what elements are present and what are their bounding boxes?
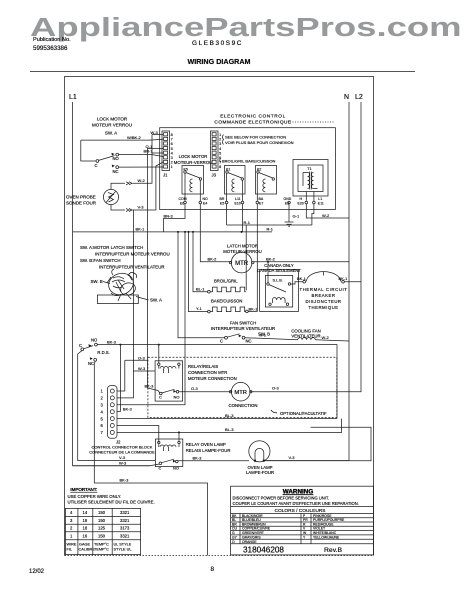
svg-text:4: 4 xyxy=(171,151,173,155)
svg-text:3: 3 xyxy=(171,156,173,160)
svg-text:BAKE/CUISSON: BAKE/CUISSON xyxy=(211,299,242,304)
svg-text:4: 4 xyxy=(101,409,104,414)
svg-text:GRAY/GRIS: GRAY/GRIS xyxy=(242,535,261,539)
svg-text:Y-1: Y-1 xyxy=(196,306,203,311)
svg-text:UL STYLE: UL STYLE xyxy=(114,543,132,547)
wire BN-3 from COM xyxy=(164,204,186,232)
svg-text:FIL: FIL xyxy=(67,548,73,552)
wire J2 pin6 to lamp relay coil xyxy=(117,426,159,443)
svg-text:N: N xyxy=(344,94,349,101)
svg-text:C: C xyxy=(220,339,223,344)
svg-text:3321: 3321 xyxy=(120,534,130,539)
svg-text:V-3: V-3 xyxy=(289,455,296,460)
relay K1 xyxy=(225,166,246,195)
oven lamp xyxy=(249,441,270,462)
svg-text:NC: NC xyxy=(88,361,94,366)
svg-text:2: 2 xyxy=(219,138,221,142)
svg-text:FAN SWITCH: FAN SWITCH xyxy=(230,321,257,326)
svg-text:BROIL/GRIL BAKE/CUISSON: BROIL/GRIL BAKE/CUISSON xyxy=(222,159,276,164)
wire coil to RDS row xyxy=(158,345,160,363)
wire relay NO to MTR connection xyxy=(179,391,232,393)
relay K2 xyxy=(256,166,277,195)
svg-text:7: 7 xyxy=(101,430,104,435)
svg-text:C: C xyxy=(159,395,162,400)
svg-text:14: 14 xyxy=(83,510,88,515)
wire lock switch loop xyxy=(81,138,163,141)
svg-text:S.L.B.: S.L.B. xyxy=(273,278,283,282)
svg-text:THERMAL CIRCUIT: THERMAL CIRCUIT xyxy=(300,287,348,292)
svg-text:Y: Y xyxy=(303,535,306,539)
svg-text:RELAIS LAMPE-FOUR: RELAIS LAMPE-FOUR xyxy=(186,448,231,453)
svg-text:COMMANDE ELECTRONIQUE: COMMANDE ELECTRONIQUE xyxy=(214,120,291,126)
svg-text:SW. A:MOTOR LATCH SWITCH: SW. A:MOTOR LATCH SWITCH xyxy=(80,245,143,250)
svg-text:SONDE FOUR: SONDE FOUR xyxy=(66,201,97,206)
svg-text:3: 3 xyxy=(101,403,104,408)
main border bottom dotted xyxy=(65,555,374,557)
svg-text:V-3: V-3 xyxy=(119,455,126,460)
svg-text:MTR: MTR xyxy=(234,390,247,396)
svg-text:BL-1: BL-1 xyxy=(196,286,205,291)
svg-text:NO: NO xyxy=(174,395,180,400)
svg-text:YELLOW/JAUNE: YELLOW/JAUNE xyxy=(313,535,340,539)
svg-text:GY: GY xyxy=(232,535,238,539)
svg-text:BK-3: BK-3 xyxy=(145,383,155,388)
svg-text:C: C xyxy=(79,343,82,348)
svg-text:COUPER LE COURANT AVANT D'EFFE: COUPER LE COURANT AVANT D'EFFECTUER UNE … xyxy=(233,501,359,506)
svg-text:BN-3: BN-3 xyxy=(164,213,174,218)
svg-text:4: 4 xyxy=(219,147,221,151)
svg-text:6: 6 xyxy=(101,423,104,428)
svg-text:GND: GND xyxy=(284,197,292,201)
svg-text:G-1: G-1 xyxy=(293,214,300,219)
svg-text:2: 2 xyxy=(70,526,73,531)
svg-text:NO: NO xyxy=(113,156,120,161)
svg-text:MTR: MTR xyxy=(235,261,249,267)
control board pin terminals xyxy=(184,201,316,204)
svg-text:WIRE: WIRE xyxy=(67,543,77,547)
wire R-1 from BR to broil xyxy=(226,204,228,225)
svg-text:5995363386: 5995363386 xyxy=(33,45,68,52)
svg-text:NC: NC xyxy=(113,169,119,174)
svg-text:SW. B: SW. B xyxy=(91,279,103,284)
svg-text:5: 5 xyxy=(101,416,104,421)
svg-text:O-3: O-3 xyxy=(191,386,198,391)
svg-text:3173: 3173 xyxy=(120,526,130,531)
svg-text:BK-1: BK-1 xyxy=(297,276,307,281)
svg-text:SW. B:FAN SWITCH: SW. B:FAN SWITCH xyxy=(80,258,121,263)
J3 pin contacts xyxy=(212,133,216,168)
svg-text:LOCK MOTOR: LOCK MOTOR xyxy=(97,117,128,122)
motor MTR connection xyxy=(231,382,250,401)
svg-text:Rev.B: Rev.B xyxy=(324,547,342,554)
wire row BK-1 xyxy=(73,231,272,233)
wire W-3 to relay C xyxy=(73,464,160,466)
wire J2 pin3 from COM drop xyxy=(117,232,185,405)
svg-text:4: 4 xyxy=(70,510,73,515)
connector J2 xyxy=(108,386,117,439)
svg-text:ELECTRONIC CONTROL: ELECTRONIC CONTROL xyxy=(220,114,286,120)
wire from NO E4 to latch motor xyxy=(200,204,231,262)
svg-text:O-3: O-3 xyxy=(138,356,145,361)
wire MTR row to SLB xyxy=(267,262,269,277)
title underline xyxy=(30,71,415,73)
svg-text:L2: L2 xyxy=(355,94,363,101)
svg-text:R-1: R-1 xyxy=(260,333,267,338)
svg-text:W-3: W-3 xyxy=(119,460,127,465)
svg-text:W-3: W-3 xyxy=(151,130,159,135)
svg-text:J1: J1 xyxy=(163,173,168,178)
svg-text:SW. A: SW. A xyxy=(105,131,117,136)
main diagram border xyxy=(65,77,374,556)
svg-text:E4: E4 xyxy=(203,202,207,206)
svg-text:BL-3: BL-3 xyxy=(225,427,234,432)
svg-text:NO: NO xyxy=(203,197,209,201)
wire MTR to N xyxy=(254,261,349,263)
svg-text:V-3: V-3 xyxy=(138,205,145,210)
colors table xyxy=(231,513,374,543)
svg-text:E5: E5 xyxy=(220,202,224,206)
svg-text:L1: L1 xyxy=(318,197,322,201)
svg-text:TEMP°C: TEMP°C xyxy=(94,543,109,547)
svg-text:NO: NO xyxy=(91,338,98,343)
wire row R-1 upper xyxy=(227,224,312,226)
svg-text:BK-3: BK-3 xyxy=(193,455,203,460)
svg-text:E20: E20 xyxy=(298,202,304,206)
svg-text:W-3: W-3 xyxy=(138,366,146,371)
svg-text:125: 125 xyxy=(98,526,106,531)
svg-text:RELAY OVEN LAMP: RELAY OVEN LAMP xyxy=(186,442,226,447)
svg-text:BREAKER: BREAKER xyxy=(311,293,335,298)
svg-text:W-2: W-2 xyxy=(322,213,330,218)
wire BL-1 to broil xyxy=(193,232,208,292)
svg-text:TEMP°C: TEMP°C xyxy=(94,548,109,552)
wire J2 pin7 row xyxy=(117,419,342,433)
svg-text:BK-1: BK-1 xyxy=(136,227,146,232)
svg-text:150: 150 xyxy=(98,510,106,515)
svg-text:WARNING: WARNING xyxy=(283,488,314,495)
svg-text:BK-1: BK-1 xyxy=(339,276,349,281)
svg-text:5: 5 xyxy=(171,147,173,151)
svg-text:COM: COM xyxy=(179,197,187,201)
svg-text:18: 18 xyxy=(83,518,88,523)
svg-text:BR: BR xyxy=(220,197,225,201)
svg-text:OVEN PROBE: OVEN PROBE xyxy=(66,195,96,200)
wire probe top V-2 xyxy=(111,183,125,189)
wire NC to J1 xyxy=(119,166,163,168)
wire lamp relay coil right up xyxy=(178,432,180,441)
svg-text:INTERRUPTEUR MOTEUR VERROU: INTERRUPTEUR MOTEUR VERROU xyxy=(95,252,170,257)
wire probe branch to J2 pin2 xyxy=(117,210,133,398)
optional box dashed xyxy=(148,357,337,417)
svg-text:CONNECTION MTR: CONNECTION MTR xyxy=(188,370,227,375)
svg-text:W-2: W-2 xyxy=(138,178,146,183)
svg-text:BK-3: BK-3 xyxy=(107,339,117,344)
wire BN-1 stub to J1 pin4 xyxy=(152,152,163,154)
wire Y-1 to bake xyxy=(189,232,208,312)
svg-text:J3: J3 xyxy=(212,173,217,178)
svg-text:12/02: 12/02 xyxy=(29,569,45,575)
wire fan C left xyxy=(178,232,225,338)
svg-text:CALIBRE: CALIBRE xyxy=(79,548,96,552)
svg-text:1: 1 xyxy=(171,165,173,169)
svg-text:THERMIQUE: THERMIQUE xyxy=(308,305,338,310)
svg-text:GLEB30S9C: GLEB30S9C xyxy=(192,40,243,47)
svg-text:1: 1 xyxy=(219,133,221,137)
svg-text:CONNECTEUR DE LA COMMANDE: CONNECTEUR DE LA COMMANDE xyxy=(89,449,155,454)
svg-text:WIRING DIAGRAM: WIRING DIAGRAM xyxy=(187,57,250,66)
svg-text:1: 1 xyxy=(70,534,73,539)
svg-text:BK-2: BK-2 xyxy=(208,257,218,262)
wire fan to N xyxy=(315,340,349,341)
svg-text:H: H xyxy=(300,197,303,201)
svg-text:GAGE: GAGE xyxy=(79,543,90,547)
wire RDS C down xyxy=(78,351,156,461)
svg-text:1: 1 xyxy=(101,389,104,394)
switch R.D.S. xyxy=(95,343,98,346)
wire L1 bus xyxy=(73,102,150,466)
svg-text:DISCONNECT POWER BEFORE SERVIC: DISCONNECT POWER BEFORE SERVICING UNIT. xyxy=(233,496,330,501)
svg-text:MOTEUR-VERROU: MOTEUR-VERROU xyxy=(223,249,261,254)
relay auto latch xyxy=(155,361,183,401)
svg-text:W-2: W-2 xyxy=(322,335,330,340)
control board pin labels COM/E6 NO/E4 BR/E5 L11/E10 BA/E7 GND/E8 H/E20 L1/E11 xyxy=(179,197,324,206)
wire L2 bus xyxy=(250,102,361,392)
connector J1 xyxy=(162,131,170,171)
svg-text:L11: L11 xyxy=(235,197,241,201)
svg-text:INTERRUPTEUR VENTILATEUR: INTERRUPTEUR VENTILATEUR xyxy=(211,326,275,331)
svg-text:O-3: O-3 xyxy=(272,385,279,390)
svg-text:7: 7 xyxy=(171,138,173,142)
svg-text:6: 6 xyxy=(171,142,173,146)
connector J3 xyxy=(211,131,219,171)
svg-text:NO: NO xyxy=(173,466,179,471)
svg-text:BA: BA xyxy=(259,197,264,201)
svg-text:CANADA SEULEMENT: CANADA SEULEMENT xyxy=(257,268,301,273)
svg-text:NC: NC xyxy=(246,339,252,344)
svg-text:SW. A: SW. A xyxy=(150,298,162,303)
svg-text:LATCH MOTOR: LATCH MOTOR xyxy=(227,244,258,249)
svg-text:8: 8 xyxy=(219,165,221,169)
svg-text:5: 5 xyxy=(219,151,221,155)
svg-text:R.D.S.: R.D.S. xyxy=(97,350,109,355)
svg-text:C: C xyxy=(159,466,162,471)
wire lamp enclosure xyxy=(265,427,371,460)
wire NO to J1 xyxy=(119,155,163,157)
wire H E20 to N xyxy=(306,204,349,218)
J1 pin numbers 8-1 xyxy=(171,133,173,169)
svg-text:8: 8 xyxy=(211,566,215,573)
svg-text:CONNECTION: CONNECTION xyxy=(229,403,258,408)
svg-text:E11: E11 xyxy=(318,202,324,206)
svg-text:BK-1: BK-1 xyxy=(249,306,259,311)
wire W-3 to J1 pin8 xyxy=(152,134,163,136)
J3 pin numbers 1-8 xyxy=(219,133,221,169)
svg-text:LOCK MOTOR: LOCK MOTOR xyxy=(179,154,208,159)
wire probe bottom V-3 xyxy=(111,205,125,210)
svg-text:18: 18 xyxy=(83,526,88,531)
svg-text:3321: 3321 xyxy=(120,510,130,515)
wire N bus xyxy=(263,102,349,461)
svg-text:AppliancePartsPros.com: AppliancePartsPros.com xyxy=(30,12,462,42)
ground G-1 xyxy=(288,204,290,222)
warning box xyxy=(231,486,374,555)
svg-text:318046208: 318046208 xyxy=(243,546,284,555)
svg-text:8: 8 xyxy=(171,133,173,137)
wire J2 pin5 row xyxy=(117,418,337,420)
svg-text:SEE BELOW FOR CONNECTION: SEE BELOW FOR CONNECTION xyxy=(225,135,286,140)
thermal circuit breaker xyxy=(303,280,306,283)
svg-text:150: 150 xyxy=(98,534,106,539)
electronic control box xyxy=(160,128,336,210)
svg-text:R-1: R-1 xyxy=(244,220,251,225)
svg-text:BK-3: BK-3 xyxy=(123,407,133,412)
svg-text:W/BK-2: W/BK-2 xyxy=(127,135,142,140)
svg-text:E10: E10 xyxy=(235,202,241,206)
svg-text:OPTIONAL/FACULTATIF: OPTIONAL/FACULTATIF xyxy=(280,411,327,416)
svg-text:L1: L1 xyxy=(69,94,77,101)
svg-text:16: 16 xyxy=(83,534,88,539)
wire from RDS junction down to J2 pin4 xyxy=(117,345,120,412)
wire L1 E11 down xyxy=(312,204,314,225)
switch SW.A xyxy=(96,160,99,163)
svg-text:ORANGE: ORANGE xyxy=(242,540,257,544)
relay oven lamp xyxy=(155,439,182,467)
svg-text:LAMPE-FOUR: LAMPE-FOUR xyxy=(246,470,274,475)
wire L11 E10 down xyxy=(242,204,244,232)
J2 pin contacts xyxy=(110,389,114,434)
svg-text:Publication No.: Publication No. xyxy=(33,37,71,43)
svg-text:BROIL/GRIL: BROIL/GRIL xyxy=(214,278,238,283)
wire O-3 stub xyxy=(125,359,148,361)
transformer T1 xyxy=(293,160,328,197)
wire SLB to breaker xyxy=(291,282,303,284)
svg-text:USE COPPER WIRE ONLY.: USE COPPER WIRE ONLY. xyxy=(68,494,122,499)
svg-text:R-1: R-1 xyxy=(267,227,274,232)
wire BA E7 to bake xyxy=(248,204,257,312)
wire gauge table xyxy=(65,508,140,554)
wire BK-3 to auto relay C xyxy=(148,148,164,393)
svg-text:C: C xyxy=(95,163,98,168)
svg-text:BL-3: BL-3 xyxy=(225,413,234,418)
wire RDS NC down xyxy=(94,361,207,555)
relay S.L.B. xyxy=(260,270,299,312)
svg-text:150: 150 xyxy=(98,518,106,523)
svg-text:MOTEUR VERROU: MOTEUR VERROU xyxy=(92,123,132,128)
svg-text:RELAY/RELAIS: RELAY/RELAIS xyxy=(188,364,218,369)
wire fan NC to cooling fan xyxy=(245,338,298,340)
wire RDS NO row xyxy=(97,345,337,419)
svg-text:3321: 3321 xyxy=(120,518,130,523)
svg-text:IMPORTANT:: IMPORTANT: xyxy=(70,487,97,492)
svg-text:2: 2 xyxy=(171,161,173,165)
svg-text:T1: T1 xyxy=(307,166,312,171)
relay K5 xyxy=(182,166,204,195)
T1 leads to pins xyxy=(305,192,307,202)
J1 pin contacts xyxy=(164,133,168,168)
latch motor assembly drawing xyxy=(106,270,136,298)
svg-text:E7: E7 xyxy=(259,202,263,206)
svg-text:MOTEUR-VERROU: MOTEUR-VERROU xyxy=(174,160,212,165)
svg-text:BK-3: BK-3 xyxy=(120,478,130,483)
svg-text:INTERRUPTEUR VENTILATEUR: INTERRUPTEUR VENTILATEUR xyxy=(99,265,165,270)
svg-text:3: 3 xyxy=(219,142,221,146)
svg-text:MOTEUR CONNECTION: MOTEUR CONNECTION xyxy=(188,376,237,381)
J2 pin numbers 1-7 xyxy=(101,389,104,435)
wire breaker to L2 xyxy=(344,281,361,283)
svg-text:BK-2: BK-2 xyxy=(266,256,276,261)
svg-text:O: O xyxy=(232,540,235,544)
svg-text:DISJONCTEUR: DISJONCTEUR xyxy=(305,299,341,304)
svg-text:UTILISER SEULEMENT DU FIL DE C: UTILISER SEULEMENT DU FIL DE CUIVRE. xyxy=(68,500,155,505)
wire relay NO to oven lamp xyxy=(178,460,249,462)
svg-text:3: 3 xyxy=(70,518,73,523)
svg-text:2: 2 xyxy=(101,396,104,401)
svg-text:STYLE UL: STYLE UL xyxy=(114,548,132,552)
svg-text:VOIR PLUS BAS POUR CONNEXION: VOIR PLUS BAS POUR CONNEXION xyxy=(225,140,294,145)
wire W-3 stub xyxy=(133,370,155,372)
